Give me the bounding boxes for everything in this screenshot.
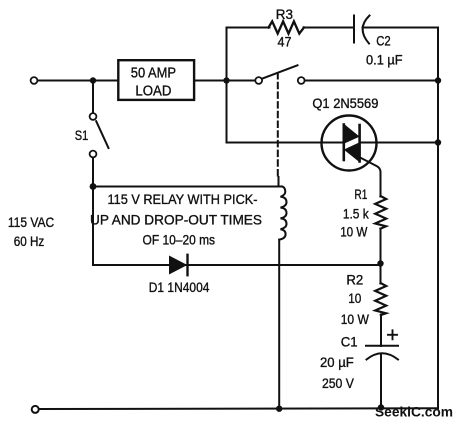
right rail	[437, 28, 439, 409]
svg-text:115 VAC: 115 VAC	[8, 215, 54, 230]
terminal bottom-left (115 VAC neutral)	[32, 406, 39, 413]
node coil / bottom rail junction	[276, 406, 282, 412]
node contact / right rail junction	[435, 77, 441, 83]
wire terminal to 50 AMP LOAD box	[38, 80, 118, 82]
resistor R3	[269, 21, 305, 33]
capacitor C2	[354, 16, 370, 44]
svg-text:R1: R1	[354, 187, 367, 202]
svg-text:10 W: 10 W	[340, 224, 367, 239]
svg-text:LOAD: LOAD	[135, 82, 171, 99]
svg-text:R3: R3	[276, 7, 293, 22]
label C1 polarity +	[388, 330, 397, 339]
left rail (vertical, R3 loop to Q1 line)	[226, 28, 228, 143]
node Q1 line / right rail junction	[435, 139, 441, 145]
svg-text:S1: S1	[75, 128, 89, 143]
svg-text:C1: C1	[341, 335, 358, 350]
relay K1 loop top wire	[93, 186, 282, 188]
mechanical link (dashed) contact to relay coil	[277, 73, 279, 177]
diode D1	[169, 255, 188, 275]
top wire with R3 and C2	[227, 27, 270, 29]
svg-text:115 V RELAY WITH PICK-: 115 V RELAY WITH PICK-	[108, 192, 258, 207]
wire R2 to C1	[380, 315, 382, 347]
triac Q1 body	[344, 124, 360, 162]
bottom rail (neutral)	[39, 407, 438, 410]
svg-text:SeekiC.com: SeekiC.com	[375, 404, 453, 420]
svg-text:47: 47	[278, 34, 292, 49]
svg-text:UP AND DROP-OUT TIMES: UP AND DROP-OUT TIMES	[90, 212, 262, 227]
relay K1 coil link stub	[278, 177, 280, 187]
svg-text:60 Hz: 60 Hz	[14, 234, 45, 249]
relay K1 loop left wire	[92, 187, 94, 266]
wire R1 to node	[380, 229, 382, 264]
relay contact (left pole)	[227, 65, 439, 84]
svg-text:10: 10	[348, 291, 361, 306]
resistor R2	[375, 264, 386, 316]
svg-text:0.1 µF: 0.1 µF	[366, 53, 403, 68]
wire Q1 main right segment (MT1 line)	[360, 142, 438, 144]
inductor K1 coil	[279, 187, 286, 240]
resistor R1	[375, 196, 386, 229]
svg-text:C2: C2	[376, 34, 391, 49]
svg-text:10 W: 10 W	[341, 312, 369, 327]
svg-text:250 V: 250 V	[322, 376, 354, 391]
svg-text:R2: R2	[346, 272, 363, 287]
wire coil bottom to ground rail	[278, 240, 280, 409]
svg-text:20 µF: 20 µF	[320, 355, 354, 370]
node relay-loop top-left junction	[90, 183, 97, 190]
svg-text:OF 10–20 ms: OF 10–20 ms	[143, 233, 216, 248]
wire Q1 main left segment (MT2 line)	[227, 142, 345, 144]
node S1 top junction	[90, 77, 96, 83]
wire R3 to C2	[304, 27, 353, 29]
svg-text:50 AMP: 50 AMP	[131, 65, 176, 82]
svg-text:1.5 k: 1.5 k	[343, 206, 369, 221]
triac Q1 circle	[322, 116, 377, 171]
svg-text:Q1 2N5569: Q1 2N5569	[312, 96, 378, 111]
wire C2 to right rail	[363, 27, 439, 29]
node R1/R2/D1 junction	[377, 260, 383, 266]
50 AMP LOAD box	[118, 60, 194, 100]
wire Q1 gate to R1	[360, 158, 381, 197]
wire D1 row	[93, 264, 381, 266]
wire LOAD box to left rail	[195, 80, 227, 82]
switch S1	[90, 81, 109, 187]
capacitor C1	[366, 346, 398, 408]
node left-rail / contact junction	[223, 77, 229, 83]
node C1 / bottom rail junction	[378, 404, 384, 410]
svg-text:D1 1N4004: D1 1N4004	[149, 280, 210, 295]
terminal top-left (115 VAC hot)	[31, 77, 38, 84]
